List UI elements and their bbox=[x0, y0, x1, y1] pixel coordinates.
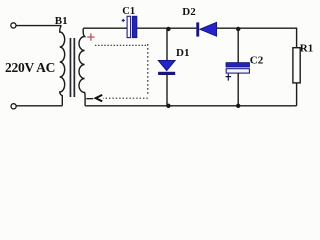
current path dashed loop (right edge) bbox=[147, 44, 149, 96]
wire (node A down to D1) bbox=[166, 28, 168, 60]
wire (top-left input to transformer primary) bbox=[16, 25, 61, 27]
svg-text:C1: C1 bbox=[122, 6, 135, 17]
wire (bottom rail, secondary side) bbox=[85, 105, 297, 107]
capacitor C1 left plate (outlined) bbox=[127, 16, 131, 37]
transformer B1 secondary winding bbox=[79, 28, 85, 105]
wire (C2 to bottom rail) bbox=[237, 73, 239, 106]
wire (R1 to bottom rail) bbox=[296, 83, 298, 106]
svg-text:220V AC: 220V AC bbox=[5, 60, 55, 75]
capacitor C2 bottom plate (outlined) bbox=[226, 69, 249, 73]
current path dashed loop (bottom edge) bbox=[103, 97, 148, 99]
terminal J2 (bottom-left input) bbox=[11, 104, 16, 109]
transformer B1 core bbox=[70, 38, 76, 97]
svg-text:C2: C2 bbox=[250, 54, 264, 66]
wire (D2 to top-right corner and down to R1) bbox=[217, 28, 297, 48]
wire (node B down to C2) bbox=[237, 28, 239, 62]
wire (bottom-left input to transformer primary) bbox=[16, 105, 62, 107]
svg-text:D1: D1 bbox=[176, 47, 189, 59]
current path arrow tail segment bbox=[86, 98, 93, 100]
wire (secondary top rail to C1) bbox=[83, 27, 127, 29]
capacitor C2 polarity + bbox=[226, 74, 232, 81]
diode D2 cathode bar bbox=[196, 22, 199, 36]
node D (junction dot at C2 bottom) bbox=[236, 104, 240, 108]
capacitor C1 right plate (solid) bbox=[132, 16, 137, 38]
wire (D1 to bottom rail) bbox=[166, 75, 168, 106]
diode D1 triangle bbox=[158, 60, 175, 70]
wire (C1 to node A) bbox=[137, 27, 197, 29]
svg-text:D2: D2 bbox=[182, 6, 196, 18]
diode D1 cathode bar bbox=[158, 72, 175, 75]
svg-text:R1: R1 bbox=[300, 43, 313, 55]
current path dashed loop (top edge) bbox=[95, 44, 148, 46]
resistor R1 bbox=[293, 48, 300, 83]
current path arrowhead (points left) bbox=[96, 95, 103, 101]
terminal J1 (top-left input) bbox=[11, 23, 16, 28]
capacitor C1 polarity + bbox=[122, 19, 125, 22]
diode D2 triangle bbox=[200, 22, 217, 36]
transformer B1 primary winding bbox=[60, 26, 65, 106]
node A (junction dot at D1 top) bbox=[166, 27, 170, 31]
node C (junction dot at D1 bottom) bbox=[166, 104, 170, 108]
node B (junction dot at C2 top) bbox=[236, 27, 240, 31]
capacitor C2 top plate (solid) bbox=[226, 63, 250, 67]
svg-text:B1: B1 bbox=[55, 15, 68, 27]
node + (secondary positive, red) bbox=[87, 33, 94, 40]
